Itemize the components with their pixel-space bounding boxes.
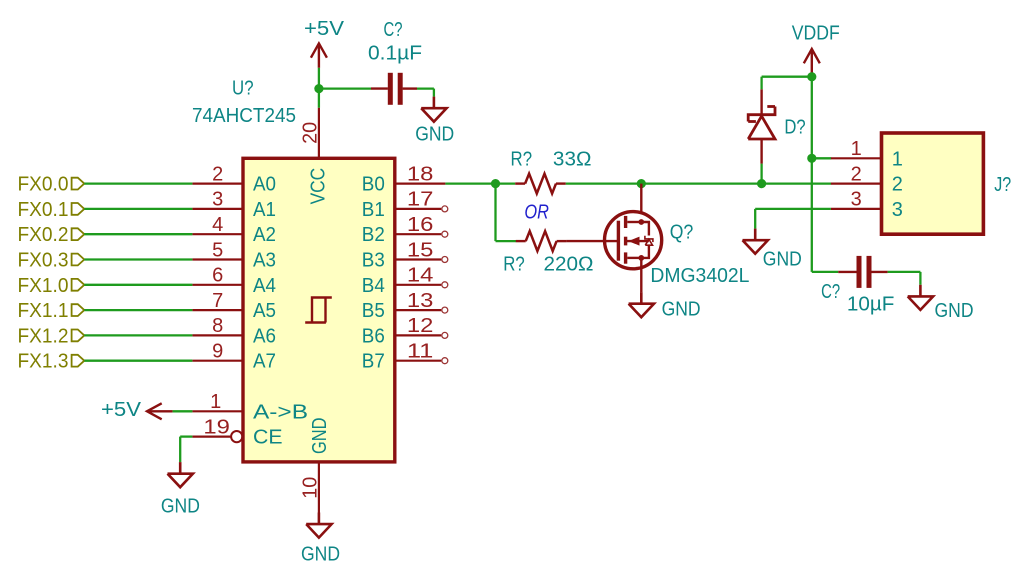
- svg-text:7: 7: [212, 290, 223, 312]
- svg-text:33Ω: 33Ω: [553, 149, 592, 171]
- svg-text:A6: A6: [253, 325, 276, 347]
- reference R? (220): [503, 254, 525, 276]
- svg-text:B3: B3: [362, 250, 385, 272]
- global label FX1.1: [18, 300, 85, 322]
- wire VDDF down: [811, 77, 813, 272]
- svg-text:FX0.3: FX0.3: [18, 250, 69, 272]
- svg-text:15: 15: [407, 239, 434, 261]
- wire FX1.1 to pin 7: [84, 309, 192, 311]
- wire junction down to R220: [496, 184, 517, 242]
- svg-text:R?: R?: [503, 254, 525, 276]
- global label FX1.0: [18, 275, 85, 297]
- svg-text:Q?: Q?: [670, 222, 694, 244]
- U? pin 16 (B2) unconnected: [362, 214, 448, 246]
- wire drain junction to zener junction: [641, 182, 761, 184]
- svg-text:DMG3402L: DMG3402L: [650, 265, 749, 287]
- svg-text:A3: A3: [253, 250, 276, 272]
- svg-text:C?: C?: [384, 19, 403, 41]
- GND label (Q?): [662, 299, 701, 321]
- svg-text:A->B: A->B: [253, 401, 308, 423]
- global label FX0.0: [18, 174, 85, 196]
- ground GND (C10): [908, 285, 933, 310]
- U? pin 7 (A5): [192, 290, 276, 322]
- svg-text:VDDF: VDDF: [792, 23, 840, 45]
- svg-text:3: 3: [892, 199, 903, 221]
- svg-text:11: 11: [407, 341, 434, 363]
- reference D?: [784, 117, 805, 139]
- +5V label (pin 1): [101, 399, 142, 421]
- svg-text:B6: B6: [362, 325, 385, 347]
- global label FX0.1: [18, 199, 85, 221]
- U? pin 11 (B7) unconnected: [362, 341, 448, 373]
- svg-text:8: 8: [212, 315, 223, 337]
- IC U? 74AHCT245 body: [243, 158, 395, 462]
- U? pin 9 (A7): [192, 341, 276, 373]
- wire VDDF to C10: [812, 271, 839, 273]
- wire FX0.0 to pin 2: [84, 182, 192, 184]
- U? pin 5 (A3): [192, 239, 276, 271]
- svg-text:17: 17: [407, 189, 434, 211]
- svg-text:A1: A1: [253, 199, 276, 221]
- svg-text:3: 3: [851, 189, 862, 211]
- wire junction to R33: [496, 182, 516, 184]
- svg-text:FX1.3: FX1.3: [18, 351, 69, 373]
- svg-text:5: 5: [212, 239, 223, 261]
- svg-text:B4: B4: [362, 275, 385, 297]
- svg-text:2: 2: [892, 174, 903, 196]
- svg-text:U?: U?: [232, 78, 254, 100]
- U? pin 14 (B4) unconnected: [362, 265, 448, 297]
- svg-text:2: 2: [851, 163, 862, 185]
- ground GND (pin 10): [306, 513, 331, 538]
- wire zener junction to J pin 2: [762, 182, 832, 184]
- svg-text:220Ω: 220Ω: [544, 254, 594, 276]
- svg-text:GND: GND: [161, 496, 200, 518]
- capacitor C? 10uF: [838, 256, 887, 288]
- svg-text:GND: GND: [662, 299, 701, 321]
- svg-text:10µF: 10µF: [847, 293, 895, 315]
- wire +5V to pin 1: [173, 410, 193, 412]
- svg-text:R?: R?: [511, 149, 533, 171]
- svg-text:GND: GND: [415, 124, 454, 146]
- schmitt trigger mark: [305, 298, 332, 323]
- GND label (J pin 3): [763, 249, 802, 271]
- svg-text:C?: C?: [821, 281, 840, 303]
- svg-text:9: 9: [212, 341, 223, 363]
- wire zener top: [762, 77, 812, 90]
- wire J pin 3 to GND: [755, 209, 831, 229]
- value 220R: [544, 254, 594, 276]
- junction VDDF: [807, 72, 816, 81]
- svg-text:FX0.0: FX0.0: [18, 174, 69, 196]
- svg-text:19: 19: [203, 416, 230, 438]
- svg-text:74AHCT245: 74AHCT245: [192, 105, 296, 127]
- U? pin 20 (VCC): [299, 108, 329, 205]
- svg-text:16: 16: [407, 214, 434, 236]
- svg-text:FX1.1: FX1.1: [18, 300, 69, 322]
- global label FX1.3: [18, 351, 85, 373]
- junction +5V/C?: [314, 84, 323, 93]
- svg-text:GND: GND: [935, 300, 974, 322]
- wire +5V to C?: [319, 87, 371, 89]
- wire +5V to VCC: [318, 68, 320, 108]
- global label FX0.2: [18, 224, 85, 246]
- U? pin 10 (GND): [299, 418, 331, 513]
- svg-text:B7: B7: [362, 351, 385, 373]
- svg-text:VCC: VCC: [308, 168, 330, 205]
- value DMG3402L: [650, 265, 749, 287]
- wire C? to GND: [417, 89, 434, 97]
- svg-text:12: 12: [407, 315, 434, 337]
- +5V power symbol (pin 1): [147, 403, 173, 419]
- wire FX0.3 to pin 5: [84, 258, 192, 260]
- svg-text:B5: B5: [362, 300, 385, 322]
- wire source to GND: [640, 258, 642, 292]
- svg-text:14: 14: [407, 265, 434, 287]
- U? pin 15 (B3) unconnected: [362, 239, 448, 271]
- ground GND (pin 19): [168, 462, 193, 487]
- value 10uF: [847, 293, 895, 315]
- value 33R: [553, 149, 592, 171]
- reference C? (10uF): [821, 281, 840, 303]
- svg-text:FX0.2: FX0.2: [18, 224, 69, 246]
- svg-text:FX1.2: FX1.2: [18, 325, 69, 347]
- J? pin 1: [831, 138, 903, 170]
- transistor Q? DMG3402L: [605, 212, 662, 269]
- GND label (top): [415, 124, 454, 146]
- svg-text:OR: OR: [524, 201, 549, 223]
- svg-text:D?: D?: [784, 117, 805, 139]
- wire drain: [640, 184, 642, 212]
- svg-text:3: 3: [212, 189, 223, 211]
- wire FX1.3 to pin 9: [84, 360, 192, 362]
- svg-text:2: 2: [212, 163, 223, 185]
- GND label (C10): [935, 300, 974, 322]
- U? pin 6 (A4): [192, 265, 276, 297]
- svg-text:+5V: +5V: [101, 399, 142, 421]
- svg-text:18: 18: [407, 163, 434, 185]
- reference J?: [994, 174, 1011, 196]
- svg-text:FX0.1: FX0.1: [18, 199, 69, 221]
- svg-text:B1: B1: [362, 199, 385, 221]
- reference C? (0.1uF): [384, 19, 403, 41]
- U? pin 2 (A0): [192, 163, 276, 195]
- svg-text:13: 13: [407, 290, 434, 312]
- wire zener junction up: [760, 164, 762, 184]
- ground GND (Q? source): [629, 292, 654, 317]
- U? pin 8 (A6): [192, 315, 276, 347]
- svg-text:A7: A7: [253, 351, 276, 373]
- +5V power symbol (top): [311, 43, 327, 67]
- svg-text:A4: A4: [253, 275, 276, 297]
- wire FX1.2 to pin 8: [84, 334, 192, 336]
- wire pin 18 to junction: [445, 182, 495, 184]
- svg-text:6: 6: [212, 265, 223, 287]
- U? pin 1 (A-&gt;B): [192, 391, 308, 423]
- capacitor C? 0.1uF: [371, 73, 417, 105]
- svg-text:+5V: +5V: [304, 18, 345, 40]
- VDDF label: [792, 23, 840, 45]
- U? pin 13 (B5) unconnected: [362, 290, 448, 322]
- U? pin 19 (CE, inverted): [192, 416, 282, 448]
- ground GND (J pin 3): [743, 229, 768, 254]
- value 74AHCT245: [192, 105, 296, 127]
- U? pin 4 (A2): [192, 214, 276, 246]
- svg-text:A0: A0: [253, 174, 276, 196]
- svg-text:GND: GND: [301, 544, 340, 566]
- power symbol VDDF: [804, 49, 820, 73]
- svg-text:J?: J?: [994, 174, 1011, 196]
- svg-text:FX1.0: FX1.0: [18, 275, 69, 297]
- ground GND (top right of U?): [421, 97, 446, 122]
- wire to J pin 1: [812, 157, 831, 159]
- svg-text:A2: A2: [253, 224, 276, 246]
- GND label (pin 19): [161, 496, 200, 518]
- U? pin 3 (A1): [192, 189, 276, 221]
- GND label (pin 10): [301, 544, 340, 566]
- reference Q?: [670, 222, 694, 244]
- note OR: [524, 201, 549, 223]
- svg-text:1: 1: [210, 391, 221, 413]
- wire FX0.1 to pin 3: [84, 208, 192, 210]
- svg-text:10: 10: [299, 477, 321, 499]
- value 0.1uF: [368, 43, 422, 65]
- svg-text:GND: GND: [763, 249, 802, 271]
- U? pin 18 (B0): [362, 163, 446, 195]
- svg-text:CE: CE: [253, 427, 283, 449]
- J? pin 2: [831, 163, 903, 195]
- wire R33 to drain junction: [566, 182, 642, 184]
- svg-text:GND: GND: [309, 418, 331, 455]
- svg-text:1: 1: [892, 148, 903, 170]
- global label FX1.2: [18, 325, 85, 347]
- svg-text:B0: B0: [362, 174, 385, 196]
- +5V label (top): [304, 18, 345, 40]
- diode D? zener: [748, 89, 775, 163]
- resistor R? 33: [515, 174, 566, 194]
- wire FX0.2 to pin 4: [84, 233, 192, 235]
- junction B0 branch: [491, 179, 500, 188]
- connector J? body: [882, 133, 984, 234]
- reference U?: [232, 78, 254, 100]
- wire pin 19 to GND: [180, 437, 192, 463]
- svg-text:1: 1: [851, 138, 862, 160]
- global label FX0.3: [18, 250, 85, 272]
- reference R? (33): [511, 149, 533, 171]
- svg-text:4: 4: [212, 214, 223, 236]
- svg-text:A5: A5: [253, 300, 276, 322]
- U? pin 12 (B6) unconnected: [362, 315, 448, 347]
- wire R220 to gate: [566, 240, 618, 242]
- svg-text:20: 20: [299, 122, 321, 144]
- resistor R? 220: [516, 231, 567, 251]
- junction J pin 1: [807, 154, 816, 163]
- junction drain: [637, 179, 646, 188]
- wire FX1.0 to pin 6: [84, 284, 192, 286]
- svg-text:0.1µF: 0.1µF: [368, 43, 422, 65]
- svg-text:B2: B2: [362, 224, 385, 246]
- J? pin 3: [831, 189, 903, 221]
- U? pin 17 (B1) unconnected: [362, 189, 448, 221]
- junction zener: [757, 179, 766, 188]
- wire C10 to GND: [888, 272, 921, 285]
